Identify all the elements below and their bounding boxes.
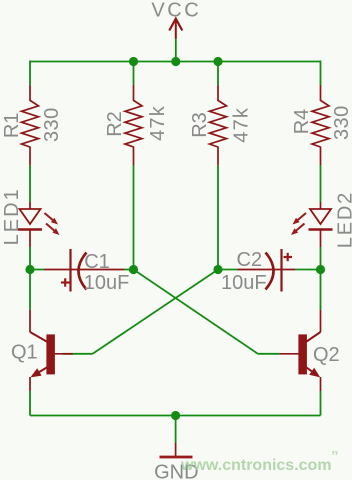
svg-text:Q1: Q1 [11,342,38,364]
svg-text:10uF: 10uF [221,272,267,294]
svg-text:10uF: 10uF [84,272,130,294]
svg-text:R4: R4 [291,109,313,135]
svg-text:Q2: Q2 [313,344,340,366]
svg-text:LED2: LED2 [335,191,352,248]
svg-text:330: 330 [331,105,352,140]
svg-text:VCC: VCC [151,0,201,22]
svg-text:LED1: LED1 [1,187,23,245]
svg-text:330: 330 [41,107,63,142]
svg-text:47k: 47k [231,107,253,143]
svg-text:www.cntronics.com: www.cntronics.com [180,457,332,474]
svg-text:C2: C2 [237,249,263,271]
svg-text:R1: R1 [1,113,23,139]
svg-text:”: ” [331,448,339,465]
svg-text:R2: R2 [104,111,126,137]
svg-text:C1: C1 [84,251,110,273]
svg-text:47k: 47k [147,105,169,141]
svg-text:R3: R3 [189,112,211,138]
